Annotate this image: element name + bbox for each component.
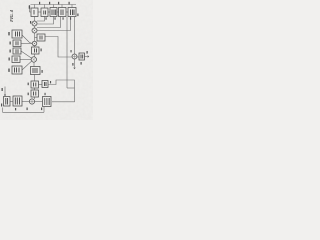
- box U21c: [50, 8, 57, 17]
- wire vertical to adder A1: [74, 17, 76, 54]
- multiplier symbol M3: [33, 42, 35, 44]
- box U23: [68, 8, 76, 17]
- box 35: [31, 67, 41, 75]
- label text in box 33: [35, 49, 37, 53]
- wire A2 to box 45: [35, 101, 43, 103]
- wire top bus: [31, 4, 77, 6]
- numeral 36 right of box36b: [50, 81, 51, 83]
- wire L4 out diagonal to M4: [22, 61, 31, 70]
- label text in L3: [15, 57, 17, 61]
- numeral above bus 3: [58, 2, 59, 5]
- wire M4 down to box 35: [33, 62, 35, 66]
- wire L2 out diagonal to M4: [21, 51, 31, 58]
- wire L0 out diagonal to M3: [22, 35, 32, 43]
- wire bottom line left end up: [2, 108, 4, 113]
- numeral 40 left of M1: [30, 21, 31, 24]
- numeral above box 45: [45, 93, 46, 95]
- numeral left of L2: [10, 50, 11, 53]
- adder A1: [72, 54, 77, 59]
- numeral right of box 35: [42, 70, 43, 73]
- wire box 33 to M4: [34, 54, 36, 57]
- multiplier M4: [31, 57, 36, 62]
- box U22: [59, 8, 67, 17]
- numeral 38 beside arrow below A1: [72, 63, 73, 66]
- label text in L4: [15, 68, 20, 73]
- numeral 39 below box 39: [81, 62, 82, 65]
- adder A2: [29, 99, 34, 104]
- wire bus drop to U23: [71, 5, 73, 8]
- numeral below U22: [63, 17, 64, 19]
- numeral above bus 1: [39, 2, 40, 5]
- wire boxrow vertical: [34, 88, 36, 90]
- box 33: [32, 47, 40, 54]
- box U21a: [31, 8, 38, 17]
- numeral below box 45: [41, 108, 42, 111]
- wire output arrow right: [85, 56, 90, 58]
- box 45 hatched: [43, 97, 52, 107]
- numeral 25 right of U23: [77, 14, 78, 17]
- multiplier M3: [32, 41, 37, 46]
- numeral 31 input: [29, 6, 30, 9]
- label text in bbox2: [15, 98, 19, 105]
- label text in U21a: [33, 10, 35, 15]
- left input box L0: [12, 30, 22, 38]
- wire U21a down to M1: [34, 17, 36, 22]
- wire U22 to M2: [37, 17, 61, 28]
- numeral below U23: [70, 17, 71, 19]
- label text in box 36a: [34, 83, 36, 87]
- wire stub to box 32: [35, 37, 38, 39]
- box bbox1: [4, 97, 11, 107]
- numeral left of L4: [8, 69, 9, 72]
- numeral below U21b: [46, 17, 47, 19]
- label text in bbox1: [6, 98, 8, 105]
- wire box36a to box36b: [39, 84, 43, 86]
- wire L3 out to M4: [20, 59, 31, 61]
- wire bbox1 to bbox2: [10, 101, 13, 103]
- wire long vertical from U22 area down: [66, 17, 68, 88]
- numeral below U21c: [55, 17, 56, 19]
- multiplier symbol M1: [33, 22, 35, 24]
- left input box L4: [12, 66, 22, 74]
- wire adder A1 to box 39: [77, 56, 79, 58]
- label text in box 41: [34, 92, 36, 96]
- symbols in circles: [30, 22, 76, 103]
- numeral left of box 36a: [28, 83, 29, 86]
- label text in U22: [61, 10, 63, 16]
- wire box 35 down to box row: [34, 75, 36, 82]
- left input box L1: [13, 40, 21, 47]
- multiplier symbol M2: [33, 29, 35, 31]
- wire M1 to M2: [34, 26, 36, 28]
- wire to adder A2: [34, 97, 36, 99]
- numeral above bus 4: [69, 2, 70, 5]
- wire feedback corner: [52, 80, 75, 102]
- numeral 33 right of box 33: [41, 49, 42, 52]
- adder symbol A1: [73, 55, 76, 58]
- label text in box 45: [44, 98, 49, 105]
- numeral left of L1: [10, 42, 11, 45]
- label text in U21b: [44, 11, 46, 15]
- wire U21c-U22: [57, 11, 59, 13]
- numeral below A2: [27, 108, 28, 111]
- label text in box 36b: [45, 82, 47, 86]
- svg-text:FIG. 4: FIG. 4: [9, 10, 14, 22]
- wire bus drop to U21b: [44, 5, 46, 9]
- label text in box 32: [40, 36, 42, 40]
- wire M2 down: [34, 33, 36, 41]
- numeral above output arrow: [87, 51, 88, 54]
- label text in U23: [71, 10, 75, 16]
- wire bus drop to U21a: [34, 5, 36, 9]
- label text in L0: [16, 32, 20, 37]
- wire below adder A1: [74, 59, 76, 69]
- left input box L2: [13, 48, 21, 54]
- multiplier M1: [32, 21, 37, 26]
- wire U23 to M2: [37, 17, 71, 31]
- box 36a: [31, 81, 39, 88]
- wire bottom long line: [3, 111, 45, 113]
- numeral left of L3: [9, 58, 10, 61]
- wire junction stub: [67, 87, 75, 89]
- numeral 42 left of input arrow: [2, 88, 3, 91]
- tiny reference numeral marks: [1, 2, 88, 111]
- wire U22-U23: [66, 11, 68, 13]
- box 36b: [42, 81, 48, 88]
- numeral above bus 2: [49, 2, 50, 5]
- box 41: [31, 90, 39, 97]
- numeral left of box 41: [28, 93, 29, 96]
- wire L1 out to M3: [21, 43, 32, 45]
- box 32: [37, 34, 45, 41]
- numeral 37 above A1: [71, 50, 72, 52]
- multiplier symbol M4: [33, 58, 36, 61]
- label text in box 39: [81, 55, 83, 59]
- wire M3 to box 33: [34, 46, 36, 47]
- wire U21b-U21c: [48, 11, 50, 13]
- adder symbol A2: [30, 100, 34, 104]
- wire bottom line right end up: [43, 107, 45, 112]
- label text in L1: [16, 41, 18, 45]
- wire box36b right: [48, 80, 67, 85]
- rotated text bars inside boxes: [6, 10, 83, 106]
- numeral label mid bottom: [15, 108, 16, 110]
- label text in box 35: [33, 68, 37, 73]
- label text in L2: [16, 49, 18, 53]
- wire bbox2 to A2: [22, 101, 29, 103]
- wire bus drop to U22: [61, 5, 63, 8]
- box U21b: [41, 8, 48, 17]
- wire U21c to M1: [37, 17, 54, 25]
- multiplier M2: [32, 28, 37, 33]
- numeral left of bottom line: [1, 104, 2, 107]
- wire box 32 out to adder A1: [45, 37, 72, 58]
- wire U21a-U21b: [38, 11, 41, 13]
- label text in U21c: [52, 10, 56, 16]
- box 39: [79, 53, 85, 60]
- left input box L3: [12, 56, 20, 63]
- numeral left of L0: [8, 32, 9, 35]
- box bbox2: [13, 96, 22, 106]
- wire input to U21a: [30, 5, 32, 12]
- wire bus drop to U21c: [53, 5, 55, 8]
- wire U21b to M1: [37, 17, 45, 22]
- input arrow bottom left: [4, 87, 6, 97]
